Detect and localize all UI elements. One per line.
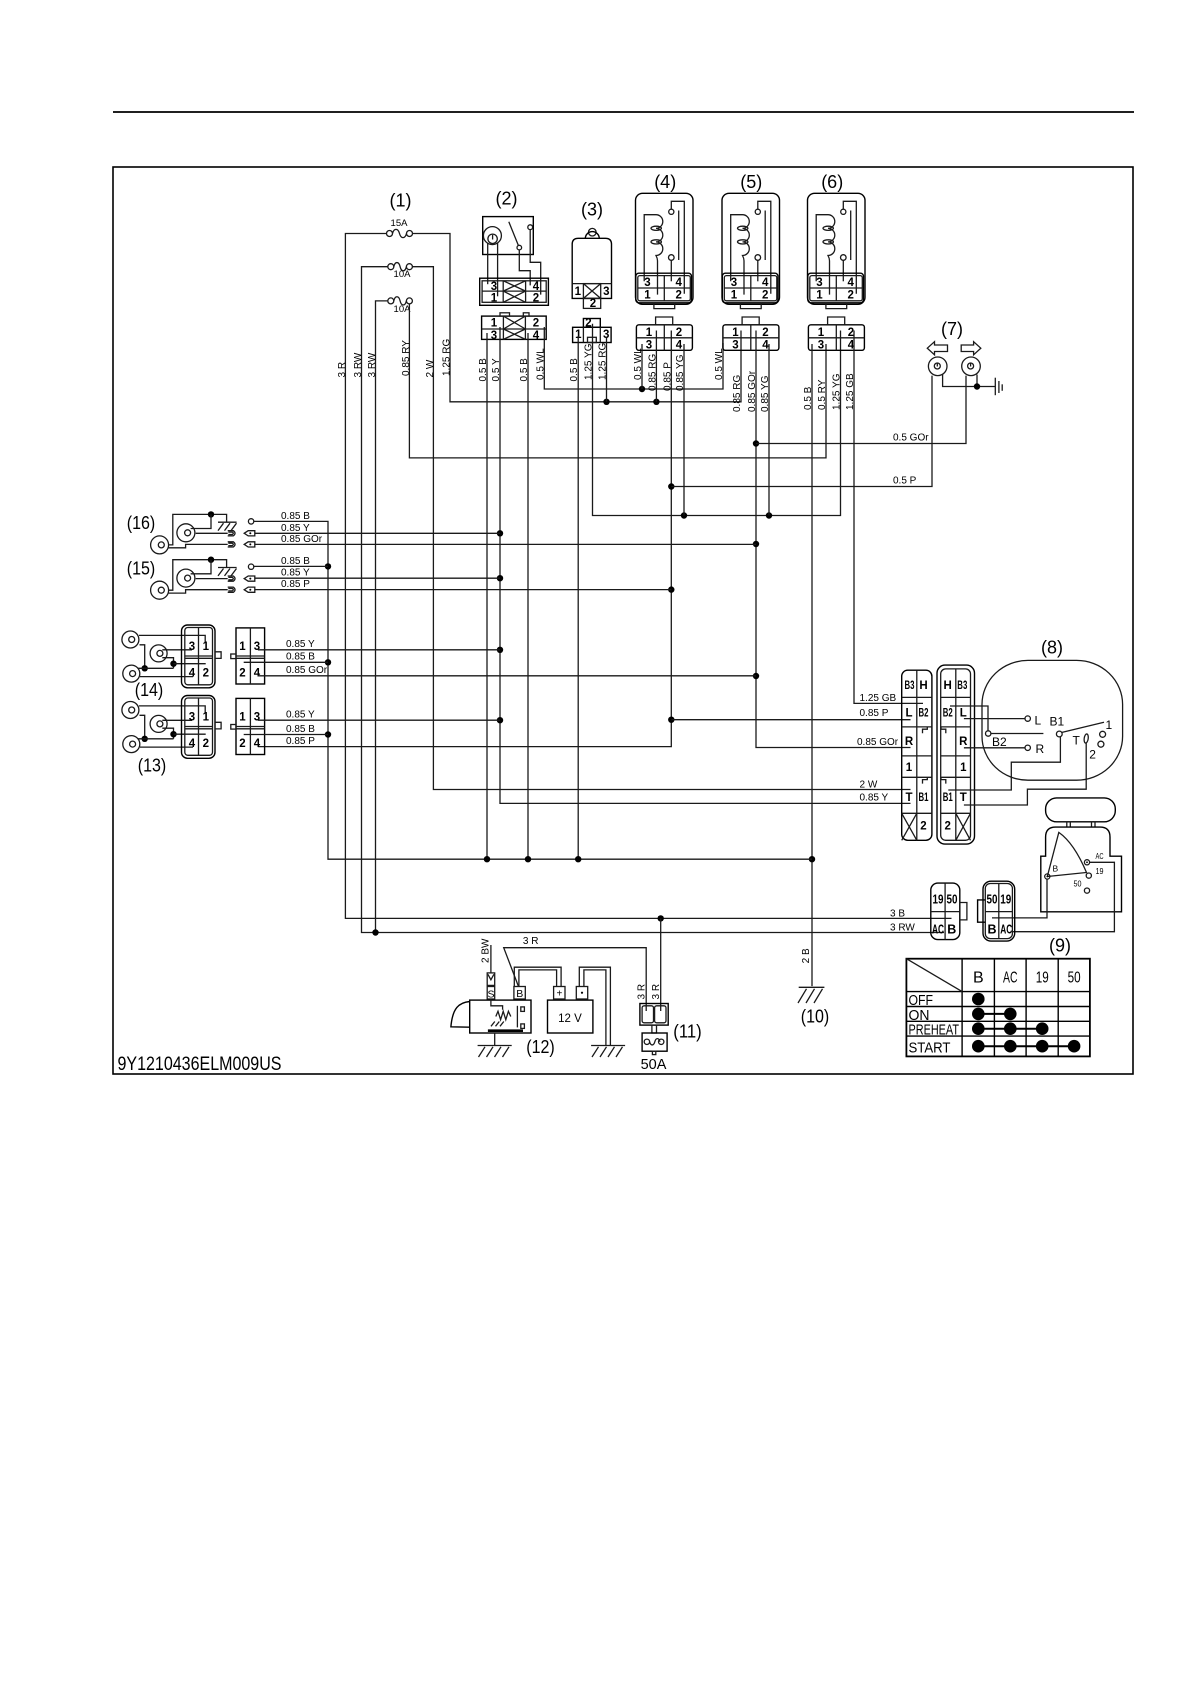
svg-text:3: 3 <box>491 330 497 342</box>
svg-text:0.85 RY: 0.85 RY <box>401 340 412 376</box>
svg-text:0.85 RG: 0.85 RG <box>732 375 743 412</box>
svg-text:(14): (14) <box>135 680 164 700</box>
label (6) <box>821 172 843 192</box>
svg-text:(12): (12) <box>526 1037 555 1057</box>
svg-text:50A: 50A <box>641 1057 667 1073</box>
ground symbol (7) <box>995 378 1002 396</box>
svg-text:PREHEAT: PREHEAT <box>909 1022 960 1039</box>
wire label 1.25 RG <box>442 339 453 376</box>
wire label 0.85 RG <box>647 354 658 391</box>
label (4) <box>654 172 676 192</box>
svg-text:B: B <box>987 923 996 937</box>
wire label 1.25 YG <box>584 343 595 380</box>
switch position table (9) <box>906 959 1090 1057</box>
svg-text:3 R: 3 R <box>651 984 662 1000</box>
wire label 0.85 RG <box>732 375 743 412</box>
key switch oval (8) <box>982 660 1123 780</box>
svg-text:19: 19 <box>933 893 944 907</box>
svg-text:2 W: 2 W <box>425 359 436 377</box>
indicator bulb inside (2) <box>483 227 501 245</box>
label (12) <box>526 1037 555 1057</box>
50A fuse body <box>642 1033 667 1055</box>
wire label 0.5 GOr <box>893 433 929 444</box>
svg-text:B3: B3 <box>905 680 915 692</box>
wire label 0.85 P <box>662 362 673 391</box>
svg-text:1: 1 <box>906 762 913 774</box>
svg-text:50: 50 <box>1074 878 1082 888</box>
wire 2BW stub <box>490 945 492 973</box>
svg-text:B1: B1 <box>1050 715 1065 729</box>
svg-text:2 W: 2 W <box>860 779 878 790</box>
switch contact B2 <box>950 706 1043 749</box>
table row ON dots <box>972 1008 1017 1021</box>
svg-text:(1): (1) <box>390 191 412 211</box>
wire label 3 RW <box>890 922 915 933</box>
relay (5) <box>722 193 780 308</box>
wire 0.85B row (13) <box>244 734 328 736</box>
label (1) <box>390 191 412 211</box>
wire 0.85P row (15) <box>255 589 672 591</box>
label (3) <box>581 200 603 220</box>
label (2) <box>496 189 518 209</box>
svg-text:2: 2 <box>920 821 926 833</box>
relay (6) <box>808 193 866 308</box>
wire 0.85GOr row (16) <box>255 543 756 545</box>
svg-text:0.85 B: 0.85 B <box>286 652 315 663</box>
svg-text:T: T <box>1073 734 1081 748</box>
svg-text:AC: AC <box>1000 923 1012 937</box>
svg-text:1.25 YG: 1.25 YG <box>584 343 595 380</box>
svg-text:2: 2 <box>533 318 539 330</box>
wire label 0.85 GOr <box>286 665 328 676</box>
wire 1.25GB relay6 to key connector B2 <box>854 331 923 704</box>
relay (4) <box>636 193 694 308</box>
wire label 1.25 GB <box>860 693 897 704</box>
svg-text:B1: B1 <box>943 792 953 804</box>
fuse F1 15A <box>387 218 413 238</box>
fixed contact in (2) to pin 2 <box>528 225 541 295</box>
turn arrow left <box>927 342 947 355</box>
svg-text:1.25 RG: 1.25 RG <box>442 339 453 376</box>
svg-text:T: T <box>960 792 967 804</box>
svg-text:S: S <box>487 988 494 1000</box>
svg-text:0.5 B: 0.5 B <box>519 358 530 382</box>
key switch body head <box>1046 798 1116 827</box>
svg-text:9Y1210436ELM009US: 9Y1210436ELM009US <box>118 1053 282 1075</box>
svg-text:R: R <box>1036 742 1045 756</box>
switch rotor B1 <box>948 715 1104 790</box>
wire label 0.85 B <box>286 652 315 663</box>
label (10) <box>801 1007 830 1027</box>
svg-text:B: B <box>516 988 523 1000</box>
svg-text:0.85 Y: 0.85 Y <box>286 639 315 650</box>
battery cable to ground <box>579 967 610 1045</box>
flasher unit box (2) <box>483 217 534 255</box>
svg-text:(13): (13) <box>138 756 167 776</box>
ground (10) <box>798 987 824 1003</box>
table row START dots <box>972 1040 1080 1053</box>
switch contact L <box>964 714 1042 728</box>
wire label 3 RW <box>353 352 364 377</box>
contact AC of key switch <box>1084 851 1103 865</box>
wire B to connector <box>992 879 1047 918</box>
wire 0.85YG stub relay5 <box>768 344 770 516</box>
bulb leads to pins 3 and 1 <box>488 243 498 296</box>
wire 3R battery branch <box>504 948 647 1011</box>
battery minus terminal <box>576 987 587 1000</box>
fuse F3 10A <box>388 297 413 315</box>
svg-text:3 R: 3 R <box>523 936 539 947</box>
wire 0.85RY (fuse3 to relay 6) <box>409 304 826 458</box>
wire label 2 W <box>425 359 436 377</box>
label 50A <box>641 1057 667 1073</box>
svg-text:H: H <box>919 680 927 692</box>
wire label 0.85 GOr <box>747 370 758 412</box>
turn arrow right <box>961 342 981 355</box>
svg-text:0.85 B: 0.85 B <box>286 724 315 735</box>
wire label 0.85 P <box>860 708 889 719</box>
svg-text:+: + <box>556 989 562 1000</box>
wire 0.85P net relay4 to lamps and key connector L <box>258 331 932 747</box>
svg-text:(9): (9) <box>1049 936 1071 956</box>
svg-text:B: B <box>947 923 956 937</box>
svg-text:B2: B2 <box>943 708 953 720</box>
svg-text:0.85 GOr: 0.85 GOr <box>747 370 758 412</box>
svg-text:50: 50 <box>987 893 998 907</box>
svg-text:0.5 P: 0.5 P <box>893 476 917 487</box>
svg-text:4: 4 <box>533 330 540 342</box>
wire label 3 B <box>890 908 905 919</box>
border frame <box>113 167 1133 1074</box>
svg-text:0.85 P: 0.85 P <box>662 362 673 391</box>
svg-text:0.5 B: 0.5 B <box>478 358 489 382</box>
switch contact R <box>964 742 1045 756</box>
switch contact 1 <box>1100 718 1113 737</box>
svg-text:L: L <box>905 708 912 720</box>
switch contact in (2) <box>509 222 530 286</box>
wire 3R bus (fuse1 to key connector B) <box>345 234 951 919</box>
starter motor (12) <box>451 999 531 1033</box>
wire label 2 B <box>801 948 812 963</box>
svg-text:(16): (16) <box>127 513 156 533</box>
svg-text:50: 50 <box>1068 970 1081 987</box>
svg-text:0.85 Y: 0.85 Y <box>281 523 310 534</box>
svg-text:0.85 P: 0.85 P <box>281 579 310 590</box>
wire label 3 R vertical right <box>651 984 662 1000</box>
label (15) <box>127 558 156 578</box>
svg-text:2: 2 <box>590 298 596 310</box>
svg-text:(8): (8) <box>1041 638 1063 658</box>
svg-text:AC: AC <box>1003 970 1018 987</box>
svg-text:0.85 GOr: 0.85 GOr <box>286 665 328 676</box>
connector of relay (6) <box>808 317 864 351</box>
connector of (2) upper <box>480 278 549 305</box>
svg-text:0.85 YG: 0.85 YG <box>760 375 771 412</box>
svg-text:19: 19 <box>1096 866 1104 876</box>
wire label 0.85 Y <box>281 568 310 579</box>
wire label 3 R vertical left <box>636 984 647 1000</box>
wire label 0.85 RY <box>401 340 412 376</box>
wire 0.85B row (15) <box>254 565 328 567</box>
svg-text:0.85 RG: 0.85 RG <box>647 354 658 391</box>
svg-text:19: 19 <box>1036 970 1049 987</box>
svg-text:(4): (4) <box>654 172 676 192</box>
svg-text:H: H <box>944 680 952 692</box>
starter S terminal <box>487 973 495 1000</box>
wire 0.85B row (14) <box>244 661 328 663</box>
svg-text:19: 19 <box>1000 893 1011 907</box>
starter ground <box>478 1033 512 1057</box>
footer code 9Y1210436ELM009US <box>118 1053 282 1075</box>
wire 0.85Y row (14) <box>258 649 500 651</box>
wire label 0.5 B <box>478 358 489 382</box>
svg-text:1.25 GB: 1.25 GB <box>860 693 897 704</box>
svg-text:0.5 B: 0.5 B <box>569 358 580 382</box>
ignition connector harness side <box>931 883 967 940</box>
wire 0.85RG stub relay4 <box>655 331 657 402</box>
table row PREHEAT dots <box>972 1022 1048 1035</box>
svg-text:3: 3 <box>603 286 609 298</box>
wire label 0.5 WL <box>535 348 546 380</box>
label (8) <box>1041 638 1063 658</box>
wire 0.85GOr net relay5 to lamps and key connector R <box>753 331 966 748</box>
svg-text:0.85 GOr: 0.85 GOr <box>281 534 323 545</box>
svg-text:0.85 Y: 0.85 Y <box>286 710 315 721</box>
wire label 3 RW <box>367 352 378 377</box>
connector of (2) harness side <box>482 313 547 342</box>
key connector switch side <box>937 665 975 844</box>
svg-text:1: 1 <box>491 318 498 330</box>
svg-text:B3: B3 <box>957 680 967 692</box>
wire label 0.85 YG <box>675 354 686 391</box>
wire 0.5B from (2) pin2 to ground bus <box>527 333 529 859</box>
wire label 1.25 YG <box>832 373 843 410</box>
battery ground <box>591 1046 625 1058</box>
svg-text:B2: B2 <box>919 708 929 720</box>
wire 0.5WL stub relay4 <box>641 344 643 389</box>
wire 0.85YG stub relay4 <box>683 344 685 516</box>
wire 3RW first (fuse2 to key connector AC) <box>362 267 945 933</box>
wire label 1.25 RG <box>598 343 609 380</box>
svg-text:R: R <box>905 736 914 748</box>
svg-text:(10): (10) <box>801 1007 830 1027</box>
svg-text:2: 2 <box>944 821 950 833</box>
wire label 0.85 Y <box>860 793 889 804</box>
contact 19 of key switch <box>1086 866 1104 878</box>
wire 0.5B from (3) pin1 to ground bus <box>577 336 579 859</box>
wire label 0.85 P <box>286 736 315 747</box>
svg-text:1.25 GB: 1.25 GB <box>845 373 856 410</box>
turn lamp right <box>962 357 981 376</box>
connector of relay (4) <box>636 317 692 351</box>
svg-text:L: L <box>1035 714 1042 728</box>
wire label 0.85 P <box>281 579 310 590</box>
svg-text:3 RW: 3 RW <box>890 922 915 933</box>
wire label 0.85 B <box>281 556 310 567</box>
svg-text:0.85 Y: 0.85 Y <box>281 568 310 579</box>
svg-text:0.85 YG: 0.85 YG <box>675 354 686 391</box>
connector of (3) harness side <box>573 317 612 342</box>
wire label 0.85 YG <box>760 375 771 412</box>
wire label 0.5 P <box>893 476 917 487</box>
svg-text:3: 3 <box>491 281 497 293</box>
wire 0.85B ground bus from (16) <box>254 521 812 862</box>
wire label 0.5 WL <box>633 348 644 380</box>
wire label 0.85 GOr <box>857 737 899 748</box>
top rule <box>113 111 1134 113</box>
svg-text:0.5 RY: 0.5 RY <box>817 379 828 410</box>
connector of relay (5) <box>723 317 779 351</box>
svg-text:1.25 RG: 1.25 RG <box>598 343 609 380</box>
svg-text:1: 1 <box>491 293 498 305</box>
wire 0.5B relay6 to ground (10) <box>809 344 815 986</box>
wire label 0.5 B <box>803 386 814 410</box>
svg-text:0.5 Y: 0.5 Y <box>491 358 502 381</box>
wire 2W (fuse2 to key connector T row) <box>412 267 910 790</box>
svg-text:0.85 P: 0.85 P <box>860 708 889 719</box>
label (5) <box>740 172 762 192</box>
svg-text:2: 2 <box>1089 748 1096 762</box>
wire 0.85Y row (16) <box>255 532 500 534</box>
wire label 0.5 WL <box>714 348 725 380</box>
fuse F2 10A <box>388 263 413 280</box>
wire 1.25RG from (3) pin3 to RG bus <box>606 338 608 402</box>
svg-text:B2: B2 <box>992 735 1007 749</box>
wire label 0.5 B <box>569 358 580 382</box>
svg-text:1.25 YG: 1.25 YG <box>832 373 843 410</box>
wire 0.5B from (2) pin3 to ground bus <box>486 333 488 859</box>
svg-text:(3): (3) <box>581 200 603 220</box>
svg-text:(11): (11) <box>673 1022 702 1042</box>
label (9) <box>1049 936 1071 956</box>
svg-text:(15): (15) <box>127 558 156 578</box>
svg-text:50: 50 <box>947 893 958 907</box>
switch contact T <box>964 734 1089 805</box>
svg-text:(6): (6) <box>821 172 843 192</box>
svg-text:0.5 WL: 0.5 WL <box>535 348 546 380</box>
wire label 3 R <box>337 362 348 378</box>
table row OFF dot <box>972 993 985 1006</box>
turn lamp left <box>928 357 947 376</box>
svg-text:B: B <box>973 970 984 987</box>
wire 0.85Y row (15) <box>255 577 500 579</box>
starter B terminal <box>514 987 525 1000</box>
lamp assembly (14) <box>122 625 265 688</box>
key switch body <box>1041 827 1122 912</box>
svg-text:2 B: 2 B <box>801 948 812 963</box>
svg-text:3 B: 3 B <box>890 908 905 919</box>
svg-text:AC: AC <box>932 923 944 937</box>
wire 0.85GOr row (14) <box>258 675 756 677</box>
svg-text:0.85 GOr: 0.85 GOr <box>857 737 899 748</box>
label (16) <box>127 513 156 533</box>
wire label 0.5 Y <box>491 358 502 381</box>
svg-text:T: T <box>905 792 912 804</box>
svg-text:0.85 P: 0.85 P <box>286 736 315 747</box>
svg-text:AC: AC <box>1096 851 1104 861</box>
wire 0.85Y row (13) <box>258 719 500 721</box>
svg-text:(7): (7) <box>941 319 963 339</box>
wire label 2 BW <box>480 938 491 963</box>
wire label 0.85 Y <box>281 523 310 534</box>
svg-text:(5): (5) <box>740 172 762 192</box>
wire label 0.85 Y <box>286 710 315 721</box>
lamp unit (15) <box>151 557 255 600</box>
svg-text:B: B <box>1053 864 1059 874</box>
svg-text:3 R: 3 R <box>337 362 348 378</box>
svg-text:START: START <box>909 1040 951 1057</box>
svg-text:R: R <box>959 736 968 748</box>
contact B of key switch <box>1045 864 1059 880</box>
switch wiper arc <box>1047 832 1086 876</box>
wire label 0.5 RY <box>817 379 828 410</box>
wire 1.25YG bus (3) pin2 to relays and (6) <box>593 324 841 519</box>
svg-text:0.5 GOr: 0.5 GOr <box>893 433 929 444</box>
wire label 2 W <box>860 779 878 790</box>
wire label 0.85 Y <box>286 639 315 650</box>
svg-text:1: 1 <box>960 762 967 774</box>
svg-text:15A: 15A <box>391 218 409 229</box>
contact 50 of key switch <box>1074 878 1090 893</box>
label (11) <box>673 1022 702 1042</box>
svg-text:0.5 WL: 0.5 WL <box>633 348 644 380</box>
ignition connector switch side <box>978 881 1015 941</box>
svg-text:0.85 B: 0.85 B <box>281 556 310 567</box>
wire label 0.85 B <box>281 511 310 522</box>
svg-text:3 R: 3 R <box>636 984 647 1000</box>
50A fuse connector (11) <box>640 1004 668 1034</box>
svg-text:(2): (2) <box>496 189 518 209</box>
svg-text:1: 1 <box>575 286 582 298</box>
wire 0.5Y / 0.85Y net (2) pin1 to key connector T <box>497 327 911 803</box>
svg-text:0.5 WL: 0.5 WL <box>714 348 725 380</box>
svg-text:L: L <box>960 708 967 720</box>
svg-text:0.85 Y: 0.85 Y <box>860 793 889 804</box>
lamp unit (16) <box>151 511 255 554</box>
lamp assembly (13) <box>122 696 265 759</box>
battery plus terminal <box>554 987 565 1000</box>
wire 0.5WL bus (2) pin4 to relays <box>544 327 723 392</box>
lamp ground wires (7) <box>943 375 996 390</box>
key connector harness side <box>902 670 932 840</box>
switch contact 2 <box>1089 741 1104 762</box>
buzzer (3) body <box>572 228 611 310</box>
svg-text:0.5 B: 0.5 B <box>803 386 814 410</box>
svg-text:2: 2 <box>533 293 539 305</box>
label (14) <box>135 680 164 700</box>
svg-text:3 RW: 3 RW <box>353 352 364 377</box>
wire 3R to 50A fuse right <box>658 915 664 1011</box>
wire label 0.5 B <box>519 358 530 382</box>
svg-text:1: 1 <box>1106 718 1113 732</box>
battery 12V <box>548 1000 593 1033</box>
label (7) <box>941 319 963 339</box>
wire 3RW second (fuse3 branch) <box>372 301 388 936</box>
wire AC to connector <box>1013 862 1114 931</box>
svg-text:4: 4 <box>533 281 540 293</box>
svg-text:B1: B1 <box>919 792 929 804</box>
wire label 1.25 GB <box>845 373 856 410</box>
wire 1.25RG bus (fuse1 to relays) <box>412 234 741 405</box>
svg-text:12 V: 12 V <box>558 1013 582 1025</box>
wire label 0.85 GOr <box>281 534 323 545</box>
wire label 0.85 B <box>286 724 315 735</box>
label (13) <box>138 756 167 776</box>
svg-text:2 BW: 2 BW <box>480 938 491 963</box>
wire label 3 R <box>523 936 539 947</box>
svg-text:3 RW: 3 RW <box>367 352 378 377</box>
svg-text:0.85 B: 0.85 B <box>281 511 310 522</box>
